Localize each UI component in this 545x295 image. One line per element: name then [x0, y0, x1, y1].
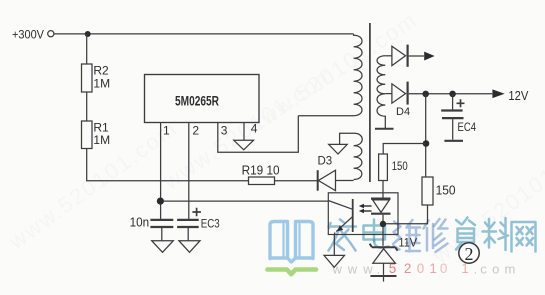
opto emitter to ground [333, 235, 335, 256]
ground aux winding [329, 144, 348, 154]
transformer secondary winding [377, 56, 385, 128]
arrow 12V [492, 89, 529, 103]
diode D3 [318, 156, 336, 191]
wire R2-R1 [86, 92, 88, 121]
svg-text:3: 3 [221, 124, 228, 138]
svg-text:w: w [347, 262, 358, 277]
ground secondary T-bar [375, 128, 394, 130]
wire top rail [54, 33, 354, 35]
svg-text:2: 2 [404, 261, 412, 276]
wire feedback to opto collector [160, 200, 328, 202]
resistor 150b [422, 177, 456, 205]
zener diode ZD 11V [370, 236, 417, 282]
node dot x426 y143 [423, 140, 430, 147]
wire rail to R2 [86, 34, 88, 64]
resistor 150a [379, 154, 408, 181]
terminal +300V [48, 31, 54, 37]
wire pin1 down [160, 123, 162, 220]
wire pin3 run [218, 116, 298, 153]
pin 1 [163, 124, 170, 138]
ground opto emitter [324, 255, 345, 267]
svg-text:1M: 1M [93, 77, 110, 91]
diode D4 [392, 82, 410, 118]
wire R19 to D3 [275, 180, 318, 182]
opto light arrows [359, 204, 372, 214]
svg-text:w: w [362, 262, 373, 277]
IC U1 5M0265R [145, 75, 260, 123]
svg-text:1M: 1M [93, 133, 110, 147]
opto LED [371, 199, 391, 214]
svg-text:R2: R2 [93, 64, 109, 78]
node dot2 12V rail [449, 91, 456, 98]
wire pin4 stub [243, 123, 245, 141]
svg-text:10n: 10n [130, 215, 150, 229]
resistor R19 [242, 164, 280, 185]
svg-text:D3: D3 [318, 156, 333, 168]
svg-text:.: . [474, 262, 478, 277]
svg-text:c: c [480, 262, 487, 277]
wire D3 to aux winding [336, 180, 354, 182]
svg-text:2: 2 [465, 244, 474, 264]
svg-text:12V: 12V [508, 89, 529, 103]
wire 150b to LED node [386, 205, 428, 224]
svg-text:EC4: EC4 [458, 120, 477, 134]
wire secondary top tap [385, 55, 392, 57]
node junction on rail [85, 31, 91, 37]
svg-text:D4: D4 [396, 106, 410, 118]
resistor R2 [82, 64, 111, 92]
svg-text:R19 10: R19 10 [242, 164, 280, 178]
svg-text:11V: 11V [399, 236, 418, 250]
transformer aux winding [340, 133, 363, 179]
diode D5 top output [392, 45, 408, 67]
svg-text:4: 4 [251, 121, 258, 135]
transformer core [369, 23, 371, 182]
transformer primary winding [298, 34, 362, 116]
capacitor EC3 [177, 208, 220, 241]
wire node to 150a [383, 144, 426, 155]
arrow output top [424, 52, 434, 61]
pin 3 [221, 124, 228, 138]
wire D5 to arrow [409, 55, 424, 57]
wire secondary mid tap to D4 [385, 93, 392, 95]
wire R1 to R19 row [87, 149, 249, 181]
node LED cathode junction [380, 221, 386, 227]
svg-text:5M0265R: 5M0265R [175, 93, 219, 108]
pin 2 [192, 124, 199, 138]
node pin1 junction [157, 198, 164, 205]
wire 12V rail down x426 [425, 94, 427, 177]
ground EC3 [179, 241, 200, 253]
wire pin2 down [188, 123, 190, 220]
wire D4 to 12V arrow [409, 93, 493, 95]
svg-text:EC3: EC3 [201, 217, 220, 231]
svg-text:o: o [492, 262, 499, 277]
wire LED cathode down [382, 215, 384, 246]
svg-text:0: 0 [417, 261, 425, 276]
svg-text:m: m [505, 262, 516, 277]
optocoupler U2 box [328, 193, 398, 235]
svg-text:+300V: +300V [12, 27, 44, 41]
pin 4 [251, 121, 258, 135]
svg-text:150: 150 [392, 159, 408, 173]
svg-text:150: 150 [436, 183, 456, 197]
svg-text:1: 1 [429, 261, 437, 276]
node dot1 12V rail [422, 91, 429, 98]
ground pin4 [234, 140, 254, 150]
wire 150a to LED anode [382, 181, 384, 199]
capacitor EC4 [441, 94, 476, 141]
svg-text:1: 1 [163, 124, 170, 138]
svg-text:2: 2 [192, 124, 199, 138]
svg-text:.: . [377, 262, 381, 277]
svg-text:0: 0 [440, 261, 448, 276]
label +300V [12, 27, 44, 41]
capacitor C 10n [130, 215, 174, 240]
ground 10n [152, 241, 174, 253]
resistor R1 [82, 121, 111, 149]
opto phototransistor [329, 199, 353, 235]
